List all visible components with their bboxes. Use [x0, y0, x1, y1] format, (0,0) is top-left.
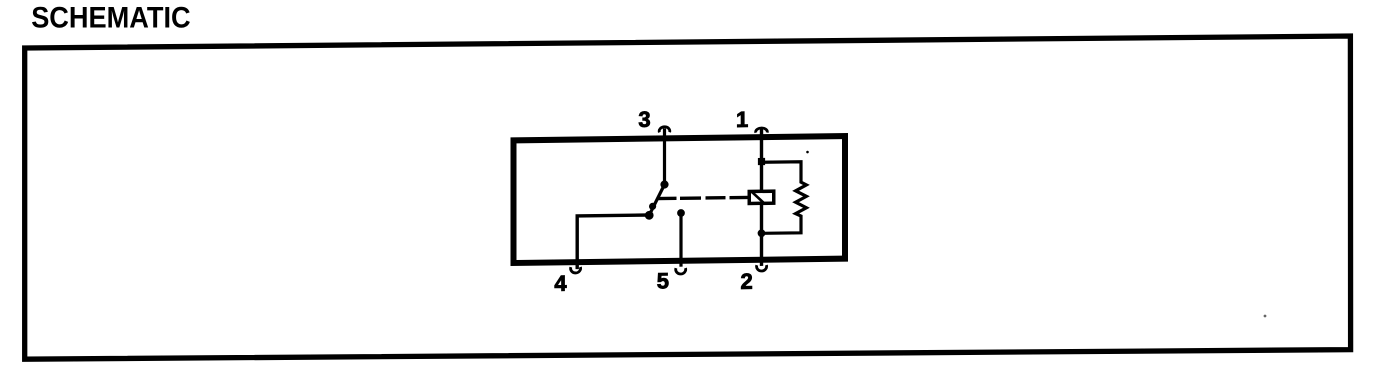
- svg-text:2: 2: [741, 269, 753, 294]
- switch pivot node A: [660, 180, 668, 188]
- pin 5 wire: [679, 213, 682, 267]
- wire to pin 4: [577, 215, 649, 269]
- pin 1 terminal arc: [756, 128, 768, 133]
- svg-text:1: 1: [736, 107, 748, 132]
- linkage dash 2: [680, 196, 701, 200]
- contact node B: [645, 211, 654, 220]
- pin 2 terminal arc: [757, 265, 767, 271]
- pin1-pin2 wire: [760, 128, 763, 266]
- switch arm tip node: [649, 203, 656, 210]
- switch arm: [650, 185, 665, 214]
- coil K body: [749, 191, 774, 203]
- relay body box: [514, 136, 846, 263]
- junction node bottom: [758, 229, 766, 237]
- pin 5 terminal arc: [676, 268, 686, 274]
- linkage dash 3: [706, 196, 726, 200]
- pin 3 terminal arc: [659, 127, 670, 133]
- stray speck: [1264, 315, 1267, 318]
- stray speck 2: [806, 151, 809, 154]
- pin 4 terminal arc: [571, 267, 581, 273]
- svg-text:4: 4: [554, 271, 567, 296]
- svg-text:3: 3: [638, 107, 650, 132]
- resistor R loop wire: [762, 162, 807, 234]
- junction node top: [758, 158, 765, 165]
- svg-text:5: 5: [657, 268, 669, 293]
- linkage dash 4: [730, 196, 750, 200]
- svg-text:SCHEMATIC: SCHEMATIC: [31, 2, 191, 35]
- coil diagonal: [751, 191, 765, 204]
- pin 3 wire: [663, 129, 666, 185]
- pin 5 node: [677, 209, 685, 217]
- linkage dash 1: [657, 197, 677, 201]
